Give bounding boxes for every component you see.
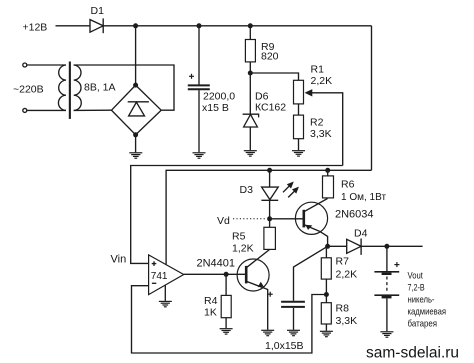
wire R4 top xyxy=(225,274,227,295)
wire secondary bottom to bridge left xyxy=(74,109,112,111)
wire battery dashed cells xyxy=(386,277,388,294)
ground op-amp xyxy=(159,301,172,306)
wire battery to ground xyxy=(386,298,388,331)
wire R9 to D6 node xyxy=(249,62,251,73)
svg-text:Vout: Vout xyxy=(408,270,424,281)
wire AC bottom lead xyxy=(27,109,66,111)
resistor R5 xyxy=(264,227,276,249)
battery GB1 cell 1 xyxy=(374,271,399,275)
svg-text:D3: D3 xyxy=(240,184,254,196)
svg-text:R2: R2 xyxy=(310,117,324,129)
resistor R9 xyxy=(245,40,255,62)
svg-text:D1: D1 xyxy=(91,5,105,17)
wire op-amp output to Q1 base xyxy=(184,273,247,275)
node AC input terminal top xyxy=(23,63,27,67)
svg-text:2200,0: 2200,0 xyxy=(203,91,235,103)
svg-text:3,3K: 3,3K xyxy=(336,315,358,327)
ground bridge xyxy=(129,153,142,158)
svg-text:~220B: ~220B xyxy=(13,84,44,96)
capacitor C1 2200uF polarity + xyxy=(189,74,194,79)
potentiometer R1 xyxy=(294,80,304,104)
svg-text:x15 B: x15 B xyxy=(202,102,229,114)
svg-text:R1: R1 xyxy=(311,64,325,76)
wire R8 to ground xyxy=(325,324,327,331)
resistor R6 xyxy=(323,176,334,198)
svg-text:Vin: Vin xyxy=(111,254,127,266)
wire op-amp inverting input feedback loop xyxy=(132,286,327,353)
svg-text:7,2-В: 7,2-В xyxy=(408,282,425,293)
wire Vd node to Q2 base xyxy=(270,218,304,220)
node bridge + output xyxy=(133,83,138,88)
capacitor C2 polarity + xyxy=(268,292,273,297)
potentiometer R1 wiper arrow xyxy=(305,89,313,96)
ground D6 xyxy=(244,151,257,156)
transistor Q2 2N6034 xyxy=(295,199,327,247)
wire rail to R9 xyxy=(249,26,251,40)
wire secondary top to bridge right xyxy=(74,65,174,110)
svg-text:3,3K: 3,3K xyxy=(310,128,332,140)
svg-text:R8: R8 xyxy=(336,303,350,315)
ground battery xyxy=(380,332,393,337)
wire bridge - to ground xyxy=(135,135,137,153)
node bridge - output xyxy=(133,132,138,137)
ground R2 xyxy=(292,151,305,156)
wire Vd node to R5 xyxy=(269,219,271,228)
svg-text:1 Ом, 1Вт: 1 Ом, 1Вт xyxy=(341,192,386,203)
svg-text:2N4401: 2N4401 xyxy=(197,258,236,270)
diode D1 xyxy=(90,18,103,33)
wire D4 cathode to output xyxy=(361,245,423,247)
wire AC top lead xyxy=(27,64,66,66)
wire supply to R6 xyxy=(327,170,329,176)
node junction rail/R9 xyxy=(248,23,253,28)
wire D6 node down to zener xyxy=(249,73,251,114)
wire R7 to tap xyxy=(325,279,327,303)
wire supply line xyxy=(166,170,371,264)
node junction rail/C1 xyxy=(197,23,202,28)
wire wiper to top line xyxy=(311,93,343,166)
wire bridge + to rail xyxy=(135,26,137,85)
ground Q1 emitter xyxy=(261,330,274,335)
node junction R7/R8 divider tap xyxy=(324,292,329,297)
svg-text:2,2K: 2,2K xyxy=(311,75,333,87)
node junction output/R4 xyxy=(224,272,229,277)
svg-text:D4: D4 xyxy=(354,228,368,240)
resistor R4 xyxy=(221,295,231,317)
wire C1 to ground xyxy=(198,90,200,152)
diode D4 xyxy=(347,239,361,255)
node junction R9/D6/R1 xyxy=(248,71,253,76)
node junction D3/R5/base xyxy=(267,216,272,221)
ground R8 xyxy=(320,331,333,336)
node junction supply/R6 xyxy=(325,168,330,173)
node junction rail/bridge xyxy=(133,23,138,28)
capacitor C1 2200uF plates xyxy=(188,85,210,89)
wire rail to C1 xyxy=(198,26,200,85)
svg-text:Vd: Vd xyxy=(217,215,230,227)
wire battery top xyxy=(386,246,388,271)
wire supply to LED D3 xyxy=(269,170,271,187)
LED D3 xyxy=(261,187,278,200)
svg-text:+12B: +12B xyxy=(23,22,48,34)
wire node to R7 xyxy=(325,246,327,257)
wire +12V rail (D1 cathode to right corner) xyxy=(103,25,371,27)
bridge rectifier xyxy=(112,85,162,135)
svg-text:R4: R4 xyxy=(204,295,218,307)
svg-text:КС162: КС162 xyxy=(255,102,286,114)
wire C2 to ground xyxy=(293,308,295,330)
svg-text:sam-sdelai.ru: sam-sdelai.ru xyxy=(366,345,459,362)
svg-text:1,0x15В: 1,0x15В xyxy=(265,340,304,352)
battery polarity + xyxy=(394,262,399,267)
svg-text:2N6034: 2N6034 xyxy=(335,209,374,221)
resistor R2 xyxy=(294,115,304,139)
svg-text:820: 820 xyxy=(261,51,279,63)
svg-text:R6: R6 xyxy=(341,179,355,191)
LED D3 emission arrows xyxy=(283,183,298,198)
wire Vd dotted annotation xyxy=(233,218,267,220)
ground R4 xyxy=(220,329,233,334)
wire rail right vertical down to supply line xyxy=(371,26,373,171)
ground C1 xyxy=(193,153,206,158)
battery GB1 cell 2 xyxy=(374,294,399,298)
wire R4 to ground xyxy=(225,318,227,329)
svg-text:R7: R7 xyxy=(336,256,350,268)
wire LED cathode to Vd node xyxy=(269,200,271,219)
wire R2 to ground xyxy=(298,139,300,151)
svg-text:батарея: батарея xyxy=(408,319,438,330)
wire reference node to R1 top xyxy=(250,73,298,80)
node junction output/battery xyxy=(384,244,389,249)
wire R1 to R2 xyxy=(298,104,300,115)
wire zener anode to ground xyxy=(249,127,251,150)
svg-text:8B, 1A: 8B, 1A xyxy=(84,82,116,94)
transistor Q1 2N4401 xyxy=(237,249,270,329)
ground C2 xyxy=(287,330,300,335)
svg-text:никель-: никель- xyxy=(408,294,435,305)
svg-text:кадмиевая: кадмиевая xyxy=(408,307,447,318)
transformer T1 core xyxy=(69,62,71,119)
node junction supply/D3 xyxy=(267,168,272,173)
svg-text:1,2K: 1,2K xyxy=(232,243,254,255)
resistor R8 xyxy=(321,303,331,324)
svg-text:R5: R5 xyxy=(232,231,246,243)
node AC input terminal bottom xyxy=(23,108,27,112)
node junction Q2/D4/R7 xyxy=(325,244,330,249)
svg-text:1K: 1K xyxy=(204,307,217,319)
resistor R7 xyxy=(321,258,331,279)
wire Q2 emitter node to D4 xyxy=(328,245,347,247)
wire +12V input to D1 anode xyxy=(56,25,91,27)
wire op-amp V- pin to ground xyxy=(164,286,166,301)
svg-text:741: 741 xyxy=(151,271,168,282)
svg-text:2,2K: 2,2K xyxy=(336,269,358,281)
wire reference top line to op-amp + input xyxy=(131,166,343,264)
op-amp U1 741 xyxy=(149,255,184,295)
transformer T1 primary winding xyxy=(58,65,66,110)
capacitor C2 plates xyxy=(281,302,305,307)
zener diode D6 KC162 xyxy=(243,114,259,127)
transformer T1 secondary winding xyxy=(74,65,82,110)
wire node to C2 filter cap xyxy=(294,246,328,300)
